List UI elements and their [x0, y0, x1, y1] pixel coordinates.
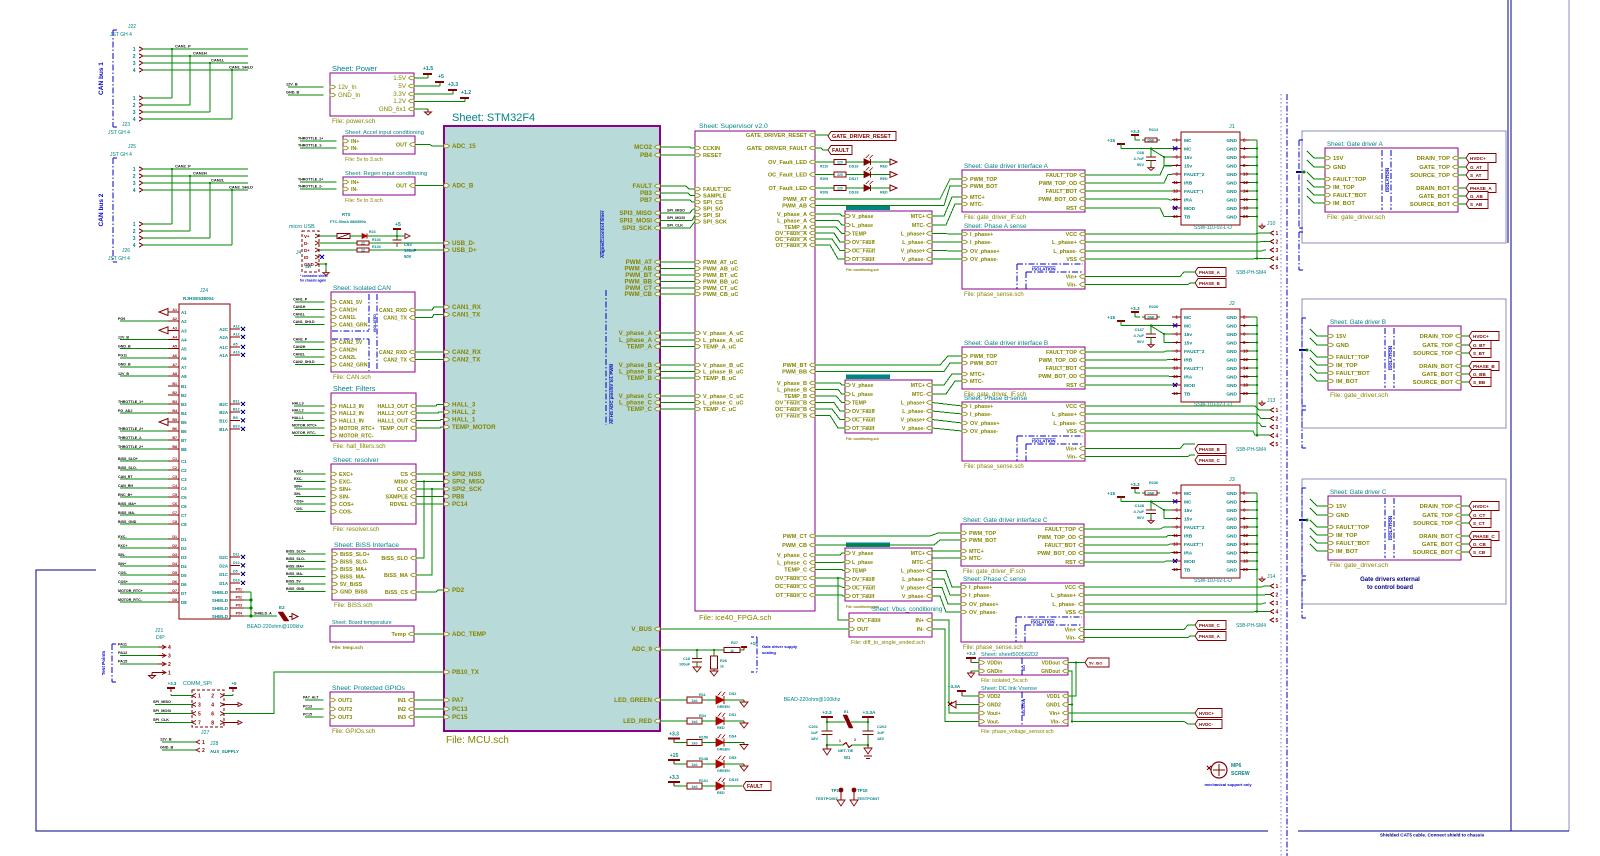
svg-text:D12: D12: [233, 561, 240, 565]
svg-text:GND: GND: [1336, 343, 1349, 349]
svg-text:VDDout: VDDout: [1042, 661, 1061, 667]
svg-text:220: 220: [837, 187, 843, 191]
svg-text:DRAIN_TOP: DRAIN_TOP: [1420, 334, 1454, 340]
svg-text:1: 1: [133, 47, 136, 53]
ground isolated5v: [971, 670, 979, 672]
svg-text:GATE_BOT: GATE_BOT: [1422, 372, 1454, 378]
svg-text:SCREW: SCREW: [1231, 771, 1250, 777]
svg-text:CAN bus 1: CAN bus 1: [98, 62, 105, 95]
sheet cur conditioning B: [845, 380, 932, 433]
wires psense B to J13: [1085, 406, 1270, 410]
svg-text:IRA: IRA: [1184, 375, 1193, 381]
svg-text:PA7_ALT: PA7_ALT: [303, 696, 319, 700]
svg-text:MOD: MOD: [1184, 559, 1196, 565]
net label SPI_CLK: [660, 222, 695, 229]
svg-text:VSS: VSS: [1066, 257, 1077, 263]
net-tie W1: [827, 744, 843, 746]
wire CAN2_RX: [415, 351, 444, 353]
svg-text:8: 8: [211, 721, 214, 727]
svg-text:BiSS_SLO+: BiSS_SLO+: [340, 552, 370, 558]
svg-text:Sheet: Gate driver A: Sheet: Gate driver A: [1327, 141, 1384, 148]
svg-text:DIP: DIP: [156, 635, 165, 641]
svg-text:CLK: CLK: [397, 487, 408, 493]
svg-text:IN-: IN-: [351, 187, 358, 193]
svg-text:A5: A5: [233, 343, 238, 347]
svg-text:PA11: PA11: [118, 643, 127, 647]
svg-text:SIN-: SIN-: [339, 495, 350, 501]
svg-text:GND1: GND1: [1046, 703, 1060, 709]
svg-text:MOTOR_RTC-: MOTOR_RTC-: [292, 431, 317, 435]
sheet Gate driver interface B: [962, 347, 1085, 389]
svg-text:Gate drivers external: Gate drivers external: [1360, 577, 1420, 583]
wires gate driver A inputs: [1307, 151, 1325, 158]
svg-text:IN2: IN2: [398, 707, 406, 713]
svg-text:SHIELD: SHIELD: [212, 606, 228, 611]
svg-text:OV_phase-: OV_phase-: [970, 257, 998, 263]
svg-text:GND: GND: [1226, 568, 1237, 574]
wires Power left: [288, 86, 324, 88]
resistor R209: [815, 174, 834, 176]
svg-text:mechanical support only: mechanical support only: [1204, 782, 1252, 787]
svg-text:USB_D-: USB_D-: [452, 240, 475, 247]
svg-text:Sheet: Power: Sheet: Power: [332, 64, 378, 73]
wire J1 GND bus: [1249, 139, 1257, 141]
svg-text:File: CAN.sch: File: CAN.sch: [333, 374, 371, 381]
power +3.3 LED row: [673, 739, 675, 743]
svg-text:A5: A5: [172, 345, 177, 349]
svg-text:SSW-110-02-L-D: SSW-110-02-L-D: [1194, 225, 1232, 231]
svg-text:A2A: A2A: [219, 335, 229, 340]
svg-text:D2C: D2C: [219, 555, 229, 560]
svg-text:5V_ISO: 5V_ISO: [1089, 662, 1102, 666]
svg-text:+5: +5: [395, 222, 401, 228]
svg-text:1: 1: [133, 167, 136, 173]
svg-text:4: 4: [133, 243, 136, 249]
svg-text:PHASE_C: PHASE_C: [1473, 534, 1495, 539]
svg-text:+5: +5: [231, 681, 237, 686]
svg-text:B8: B8: [181, 447, 187, 452]
svg-text:SPI_SO: SPI_SO: [703, 207, 724, 213]
svg-text:FAULT_2: FAULT_2: [1184, 525, 1205, 531]
svg-text:L_phase_C: L_phase_C: [777, 561, 807, 567]
svg-text:GND: GND: [1226, 349, 1237, 355]
svg-text:MISO: MISO: [394, 480, 408, 486]
svg-text:22: 22: [361, 242, 365, 246]
wire ADC_9: [660, 649, 724, 651]
cable shield line 1: [1507, 0, 1509, 243]
svg-text:GND: GND: [1226, 155, 1237, 161]
svg-text:7: 7: [198, 721, 201, 727]
svg-text:V_phase_A: V_phase_A: [619, 330, 653, 337]
svg-text:FAULT_BOT: FAULT_BOT: [1336, 541, 1370, 547]
svg-text:File: power.sch: File: power.sch: [332, 118, 376, 125]
LED DS15: [702, 785, 716, 787]
svg-text:VCC: VCC: [1065, 585, 1076, 591]
svg-text:CAN1_TX: CAN1_TX: [452, 312, 481, 319]
svg-text:GND_B: GND_B: [118, 363, 131, 367]
svg-text:PG_ADJ: PG_ADJ: [118, 409, 132, 413]
svg-text:CAN_RT: CAN_RT: [118, 475, 133, 479]
svg-text:THROTTLE_2+: THROTTLE_2+: [298, 178, 323, 182]
svg-text:PWM_AB: PWM_AB: [782, 204, 807, 210]
power +1.2: [414, 101, 465, 103]
svg-text:15V: 15V: [1336, 334, 1346, 340]
svg-text:BISS_SLO-: BISS_SLO-: [118, 466, 138, 470]
svg-text:Sheet: resolver: Sheet: resolver: [333, 457, 379, 464]
svg-text:1: 1: [1276, 231, 1279, 237]
svg-text:4: 4: [133, 68, 136, 74]
svg-text:PHASE_B: PHASE_B: [1199, 281, 1220, 286]
no-connect MOD J2: [1173, 383, 1177, 387]
svg-text:CAN2_P: CAN2_P: [293, 338, 308, 342]
svg-text:IRA: IRA: [1184, 551, 1193, 557]
svg-text:G_AB: G_AB: [1470, 194, 1483, 199]
svg-text:15V: 15V: [1336, 504, 1346, 510]
svg-text:A2C: A2C: [219, 327, 229, 332]
svg-text:ISOLATION: ISOLATION: [1388, 346, 1393, 370]
svg-text:SHIELD: SHIELD: [212, 598, 228, 603]
svg-text:R104: R104: [372, 245, 381, 249]
svg-text:L_phase+: L_phase+: [901, 232, 925, 238]
isolation divider isolated5v: [1021, 658, 1023, 675]
wires Filters left: [294, 405, 325, 407]
wires phase uC: [660, 332, 695, 334]
svg-text:MTC+: MTC+: [969, 549, 984, 555]
sheet Isolated CAN: [331, 292, 415, 372]
wires minibox C to iface C: [932, 550, 961, 552]
svg-text:GND: GND: [1226, 332, 1237, 338]
svg-text:MOTOR_RTC+: MOTOR_RTC+: [292, 424, 317, 428]
svg-text:HALL_3: HALL_3: [452, 402, 476, 409]
svg-text:V_phase_B: V_phase_B: [777, 381, 807, 387]
svg-text:L_phase-: L_phase-: [902, 240, 925, 246]
wire VDD1 from 5V_ISO: [1068, 663, 1076, 697]
global label PHASE_C: [1195, 621, 1226, 630]
svg-text:R27: R27: [731, 641, 738, 645]
net label SPI_MISO: [660, 209, 695, 214]
svg-text:1: 1: [168, 671, 171, 677]
sheet isolated 5v: [979, 658, 1068, 675]
svg-text:D-: D-: [304, 241, 309, 246]
svg-text:MOTOR_RTC+: MOTOR_RTC+: [339, 426, 375, 432]
svg-text:Temp: Temp: [391, 632, 406, 638]
svg-text:GREEN: GREEN: [717, 769, 730, 773]
svg-text:BISS_SLO-: BISS_SLO-: [286, 557, 306, 561]
wires gate driver C inputs: [1310, 499, 1328, 506]
svg-text:File: resolver.sch: File: resolver.sch: [333, 526, 380, 533]
bracket gate driver B: [1301, 318, 1303, 406]
svg-text:TB: TB: [1184, 568, 1191, 574]
svg-text:IRB: IRB: [1184, 358, 1193, 364]
svg-text:A10: A10: [233, 351, 240, 355]
dash-dot separator 1: [1280, 94, 1282, 856]
svg-text:GND: GND: [1226, 491, 1237, 497]
svg-text:CAN1L: CAN1L: [211, 58, 225, 63]
svg-text:MTC-: MTC-: [912, 560, 925, 566]
svg-text:THROTTLE_2-: THROTTLE_2-: [118, 436, 143, 440]
bracket gate driver A: [1298, 140, 1300, 228]
svg-text:A12: A12: [233, 325, 240, 329]
svg-text:A6: A6: [181, 356, 187, 361]
svg-text:BiSS_SLO: BiSS_SLO: [381, 556, 408, 562]
svg-text:4: 4: [1276, 610, 1279, 616]
svg-text:SPI_MOSI: SPI_MOSI: [667, 216, 685, 220]
svg-text:2: 2: [1276, 593, 1279, 599]
svg-text:CAN1L: CAN1L: [339, 315, 357, 321]
svg-text:PWM_BOT_OD: PWM_BOT_OD: [1037, 551, 1076, 557]
svg-text:RTS: RTS: [342, 212, 351, 217]
svg-text:MCO2: MCO2: [634, 144, 652, 151]
svg-text:B7: B7: [172, 436, 177, 440]
svg-text:VDD2: VDD2: [987, 694, 1001, 700]
svg-text:+1.2: +1.2: [461, 90, 471, 96]
svg-text:3: 3: [133, 181, 136, 187]
svg-text:ADC_15: ADC_15: [452, 143, 476, 150]
svg-text:TEMP: TEMP: [852, 232, 867, 238]
svg-text:BISS_MA+: BISS_MA+: [118, 502, 136, 506]
svg-text:THROTTLE_2+: THROTTLE_2+: [118, 445, 143, 449]
svg-text:COS-: COS-: [339, 510, 353, 516]
svg-text:PG9: PG9: [118, 317, 125, 321]
svg-text:B2: B2: [181, 393, 187, 398]
svg-text:GATE_TOP: GATE_TOP: [1419, 165, 1450, 171]
svg-text:1k: 1k: [720, 665, 724, 669]
svg-text:DNF: DNF: [1148, 316, 1155, 320]
svg-text:HALL2: HALL2: [292, 409, 304, 413]
svg-text:SAMPLE: SAMPLE: [386, 495, 409, 501]
ground J3: [1261, 577, 1263, 580]
svg-text:Aligned=control timer: Aligned=control timer: [600, 210, 605, 258]
svg-text:G_CB: G_CB: [1473, 542, 1486, 547]
svg-text:GND_In: GND_In: [338, 92, 361, 99]
wires CAN left: [295, 301, 325, 303]
svg-text:FAULT_BOT: FAULT_BOT: [1336, 371, 1370, 377]
svg-text:GND: GND: [1226, 198, 1237, 204]
svg-text:TEMP_OUT: TEMP_OUT: [380, 426, 409, 432]
testpoint TP10: [852, 788, 857, 793]
svg-text:E1: E1: [844, 710, 849, 714]
svg-text:L_phase+: L_phase+: [1052, 240, 1077, 246]
svg-text:PWM_TOP: PWM_TOP: [969, 531, 997, 537]
testpoint TP1: [839, 788, 844, 793]
svg-text:L_phase-: L_phase-: [902, 577, 925, 583]
junction gate driver A: [1296, 171, 1303, 173]
svg-text:OUT: OUT: [396, 143, 408, 149]
ground J13 pin4: [1256, 434, 1258, 436]
svg-text:PWM_AB_uC: PWM_AB_uC: [703, 267, 738, 273]
svg-text:OC_Fault: OC_Fault: [852, 586, 875, 592]
LED DS17: [846, 174, 864, 176]
svg-text:G_BB: G_BB: [1473, 372, 1486, 377]
svg-text:C7: C7: [172, 511, 177, 515]
svg-text:HALL3_IN: HALL3_IN: [339, 404, 364, 410]
svg-text:CAN2_TX: CAN2_TX: [383, 358, 407, 364]
svg-text:S5B-PH-SM4: S5B-PH-SM4: [1236, 623, 1266, 629]
svg-text:2: 2: [133, 54, 136, 60]
svg-text:OC_Fault_LED: OC_Fault_LED: [768, 173, 807, 179]
LED DS16: [846, 161, 864, 163]
svg-text:RDVEL: RDVEL: [390, 502, 409, 508]
svg-text:OV_Fault_C: OV_Fault_C: [775, 576, 807, 582]
svg-text:A1C: A1C: [219, 345, 229, 350]
capacitor C18: [696, 650, 698, 659]
svg-text:PWM_BT_uC: PWM_BT_uC: [703, 273, 738, 279]
svg-text:MTC+: MTC+: [970, 372, 985, 378]
global label PHASE_B: [1195, 445, 1226, 454]
wires gate driver B inputs: [1310, 329, 1328, 336]
svg-text:ISOLATION: ISOLATION: [1032, 439, 1056, 444]
svg-text:COS+: COS+: [339, 502, 354, 508]
LED DS5: [702, 763, 716, 765]
svg-text:CAN1_5V: CAN1_5V: [339, 300, 363, 306]
svg-text:2: 2: [854, 738, 856, 742]
svg-text:S_AB: S_AB: [1470, 202, 1483, 207]
svg-text:HVDC+: HVDC+: [1473, 504, 1489, 509]
wires PWM A: [815, 179, 962, 199]
svg-text:+3.3: +3.3: [822, 710, 832, 716]
ground C202 chassis: [867, 745, 869, 748]
svg-text:MTC-: MTC-: [970, 379, 984, 385]
svg-text:FAULT_BOT: FAULT_BOT: [1333, 193, 1367, 199]
svg-text:File: gate_driver.sch: File: gate_driver.sch: [1330, 562, 1389, 569]
power +1.5: [414, 77, 428, 79]
wire V_BUS: [660, 628, 849, 630]
global labels gate driver B right: [1461, 335, 1469, 337]
svg-text:D7: D7: [181, 591, 187, 596]
svg-text:SIN+: SIN+: [294, 485, 302, 489]
svg-text:PWM_TOP: PWM_TOP: [970, 177, 998, 183]
svg-text:GND: GND: [1226, 559, 1237, 565]
svg-text:Sheet: BiSS Interface: Sheet: BiSS Interface: [334, 542, 399, 549]
svg-text:FAULT_I: FAULT_I: [1184, 542, 1204, 548]
resistor R26: [713, 650, 715, 656]
svg-text:CAN bus 2: CAN bus 2: [98, 193, 105, 226]
svg-text:4: 4: [133, 188, 136, 194]
svg-text:3: 3: [133, 61, 136, 67]
wires phase C to minibox: [815, 553, 845, 555]
svg-text:J4: J4: [296, 250, 302, 256]
sheet Phase B sense: [962, 402, 1085, 461]
wire 15v pins J1: [1164, 156, 1172, 158]
svg-text:I_phase+: I_phase+: [970, 404, 993, 410]
svg-text:GND: GND: [1226, 366, 1237, 372]
svg-text:15v: 15v: [1184, 332, 1192, 338]
wire CAN net 3: [139, 181, 143, 185]
svg-text:J10: J10: [1267, 221, 1275, 227]
svg-text:1: 1: [133, 222, 136, 228]
svg-text:DNF: DNF: [1148, 139, 1155, 143]
svg-text:BISS_MA+: BISS_MA+: [286, 565, 304, 569]
svg-text:V_phase_A: V_phase_A: [777, 212, 807, 218]
svg-text:SOURCE_TOP: SOURCE_TOP: [1413, 521, 1453, 527]
svg-text:Vin+: Vin+: [1065, 628, 1076, 634]
svg-text:PWM_CB_uC: PWM_CB_uC: [703, 292, 738, 298]
wire CAN2_TX: [415, 359, 444, 361]
svg-text:TEMP_C: TEMP_C: [784, 568, 807, 574]
svg-text:D1C: D1C: [219, 572, 229, 577]
svg-text:3: 3: [1276, 248, 1279, 254]
svg-text:CAN1_RX: CAN1_RX: [452, 304, 482, 311]
svg-text:GND: GND: [1226, 500, 1237, 506]
svg-text:OV_phase-: OV_phase-: [970, 429, 998, 435]
svg-text:1uF: 1uF: [877, 730, 885, 735]
svg-text:File: gate_driver_IF.sch: File: gate_driver_IF.sch: [963, 569, 1025, 575]
svg-text:GND: GND: [1226, 138, 1237, 144]
svg-text:R11: R11: [699, 693, 706, 697]
svg-text:SIN+: SIN+: [339, 487, 351, 493]
svg-text:IN+: IN+: [351, 139, 359, 145]
svg-text:RED: RED: [880, 191, 888, 195]
svg-text:OV_Fault: OV_Fault: [857, 618, 881, 624]
svg-text:6: 6: [211, 712, 214, 718]
wire CAN1_TX: [415, 315, 444, 318]
svg-text:D3: D3: [172, 553, 177, 557]
svg-text:P54: P54: [236, 612, 242, 616]
svg-text:FAULT_BOT: FAULT_BOT: [1045, 543, 1077, 549]
power +15 LED row: [673, 760, 675, 764]
svg-text:R26: R26: [720, 659, 727, 663]
svg-text:GND: GND: [1226, 172, 1237, 178]
svg-text:V_phase_C: V_phase_C: [777, 553, 807, 559]
svg-text:C8: C8: [172, 520, 177, 524]
svg-text:RED: RED: [717, 726, 725, 730]
svg-text:D8: D8: [181, 600, 187, 605]
wires psense A to J10: [1085, 233, 1270, 234]
svg-text:GATE_BOT: GATE_BOT: [1422, 542, 1454, 548]
svg-text:BISS_MA-: BISS_MA-: [118, 511, 136, 515]
svg-text:SPI2_SCK: SPI2_SCK: [452, 486, 482, 493]
svg-text:L_phase+: L_phase+: [1052, 412, 1077, 418]
svg-text:A1: A1: [181, 310, 187, 315]
svg-text:ISOLATION: ISOLATION: [1032, 267, 1056, 272]
svg-text:BiSS_MA-: BiSS_MA-: [340, 575, 366, 581]
svg-text:CAN2_RX: CAN2_RX: [452, 349, 482, 356]
svg-text:TEMP_B: TEMP_B: [784, 394, 807, 400]
svg-text:DS5: DS5: [729, 756, 736, 760]
svg-text:12v_In: 12v_In: [338, 84, 357, 91]
svg-text:L_phase: L_phase: [852, 223, 873, 229]
isolation divider CAN: [368, 294, 370, 330]
svg-text:CAN1L: CAN1L: [293, 313, 306, 317]
svg-text:5: 5: [1276, 618, 1279, 624]
svg-text:MC: MC: [1184, 491, 1192, 497]
svg-text:GND: GND: [1226, 341, 1237, 347]
svg-text:2: 2: [202, 748, 205, 754]
wires BiSS left: [288, 553, 326, 555]
svg-text:J2: J2: [1229, 301, 1235, 307]
svg-text:PHASE_A: PHASE_A: [1199, 270, 1221, 275]
svg-text:IM_TOP: IM_TOP: [1336, 533, 1358, 539]
svg-text:ISOLATION: ISOLATION: [1388, 516, 1393, 540]
svg-text:1k0: 1k0: [692, 699, 698, 703]
svg-text:1: 1: [202, 740, 205, 746]
svg-text:USB_D+: USB_D+: [452, 247, 477, 254]
wires psense A Vin to PHASE labels: [1085, 272, 1195, 277]
svg-text:JST GH 4: JST GH 4: [110, 152, 132, 158]
svg-text:GND: GND: [1226, 181, 1237, 187]
isolation divider gate driver C: [1384, 498, 1386, 558]
svg-text:IRA: IRA: [1184, 198, 1193, 204]
no-connect ID: [320, 255, 324, 259]
svg-text:BISS_5V: BISS_5V: [286, 580, 301, 584]
svg-text:3: 3: [1276, 425, 1279, 431]
svg-text:IN-: IN-: [917, 627, 924, 633]
svg-text:D4: D4: [172, 562, 177, 566]
svg-text:GND: GND: [1226, 189, 1237, 195]
svg-text:2: 2: [133, 229, 136, 235]
svg-text:GND: GND: [1226, 392, 1237, 398]
svg-text:Sheet: STM32F4: Sheet: STM32F4: [452, 112, 535, 124]
